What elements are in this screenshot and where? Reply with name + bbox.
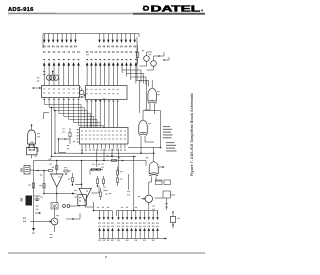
svg-text:DATEL: DATEL bbox=[151, 4, 201, 13]
output driver Q8 cluster bbox=[145, 195, 152, 202]
footer rule bbox=[8, 252, 205, 253]
latch box U1 internal cell marks bbox=[42, 89, 45, 90]
Q7 collector box bbox=[51, 203, 58, 210]
latch box U2 internal cell marks bbox=[85, 89, 88, 90]
right latch output bus (vertical wires into encoder) bbox=[86, 100, 88, 128]
right boxes R7 R8 bbox=[156, 180, 163, 185]
pre-encoder logic cluster bbox=[59, 139, 71, 144]
long verticals to analog rails bbox=[51, 108, 53, 157]
left rail resistor R6 bbox=[32, 183, 34, 188]
bottom-left small parts bbox=[36, 206, 37, 207]
clock input gate G0 (dome buffer) with driver box bbox=[28, 130, 36, 144]
overflow gate G2 (XOR up) bbox=[148, 88, 157, 102]
resistor network R2-R5 around A1 bbox=[49, 170, 53, 172]
bias taps B1-B4 (up arrows with staircase to bias cluster) bbox=[121, 51, 122, 53]
center annotation bbox=[85, 54, 88, 55]
pin legend text block bbox=[163, 126, 170, 127]
comparator row CR1-CR8 (left, up arrows into latch) bbox=[43, 51, 44, 53]
left latch output bus (staircase wires) bbox=[44, 98, 81, 128]
bottom bus with labels bbox=[100, 238, 167, 240]
A2 right resistor cluster bbox=[96, 179, 98, 184]
top clamp diode row D9-D17 (right, down arrows) bbox=[99, 34, 101, 40]
sample cap box C1 bbox=[78, 195, 87, 206]
encoder box U3 internal marks bbox=[80, 131, 83, 132]
svg-text:Figure 7. ADS-916 Simplified B: Figure 7. ADS-916 Simplified Block Schem… bbox=[190, 93, 194, 176]
gate G3 (XOR up) bbox=[139, 120, 148, 134]
transistor Q7 (bottom left) bbox=[51, 218, 58, 225]
bottom bus top bbox=[94, 202, 113, 211]
mid cluster R9 bbox=[71, 178, 73, 182]
reference box VR1 bbox=[24, 166, 30, 175]
reference buffer q4 cluster bbox=[80, 90, 84, 94]
latch box U1 (left) bbox=[42, 86, 80, 98]
gate chain long verticals bbox=[139, 80, 141, 113]
op-amp A1 (down triangle) bbox=[51, 174, 64, 187]
bottom current source row (up arrows) bbox=[98, 226, 99, 227]
encoder box U3 bbox=[80, 128, 129, 145]
bottom diode row (down arrows) bbox=[99, 211, 101, 218]
comparator row CR9-CR16 (right, up arrows into latch) bbox=[86, 51, 87, 53]
encoder-to-analog wires bbox=[81, 149, 83, 154]
encoder output pins bbox=[81, 144, 83, 149]
gate G4 (XOR up) bbox=[149, 162, 158, 175]
header rule bbox=[8, 13, 205, 15]
A1 output wire bbox=[44, 193, 74, 195]
left rail ground bbox=[33, 213, 35, 228]
encoder left edge pin text bbox=[77, 129, 79, 130]
top clamp diode row D1-D8 (left, down arrows) bbox=[43, 34, 45, 40]
latch box U2 (right) bbox=[86, 86, 128, 100]
ref top component bbox=[29, 145, 35, 150]
current mirror Q1-Q3 (three transistors) bbox=[47, 75, 52, 80]
analog supply rails bbox=[52, 156, 137, 158]
svg-text:ADS-916: ADS-916 bbox=[8, 7, 34, 13]
page background bbox=[0, 0, 213, 275]
bias network left stubs bbox=[37, 77, 38, 78]
op-amp A2 (down triangle) bbox=[79, 188, 91, 201]
corner wire near staircase bbox=[44, 113, 50, 120]
bias generator cluster (Q5,Q6,R1) bbox=[136, 52, 139, 58]
left rail capacitor C2 bbox=[34, 195, 41, 197]
DATEL logo mark bbox=[143, 6, 149, 11]
far right current source CS1 bbox=[170, 217, 175, 223]
top bus wire bbox=[43, 34, 139, 49]
thermal box RT1 bbox=[26, 196, 33, 206]
svg-text:7: 7 bbox=[105, 255, 108, 260]
